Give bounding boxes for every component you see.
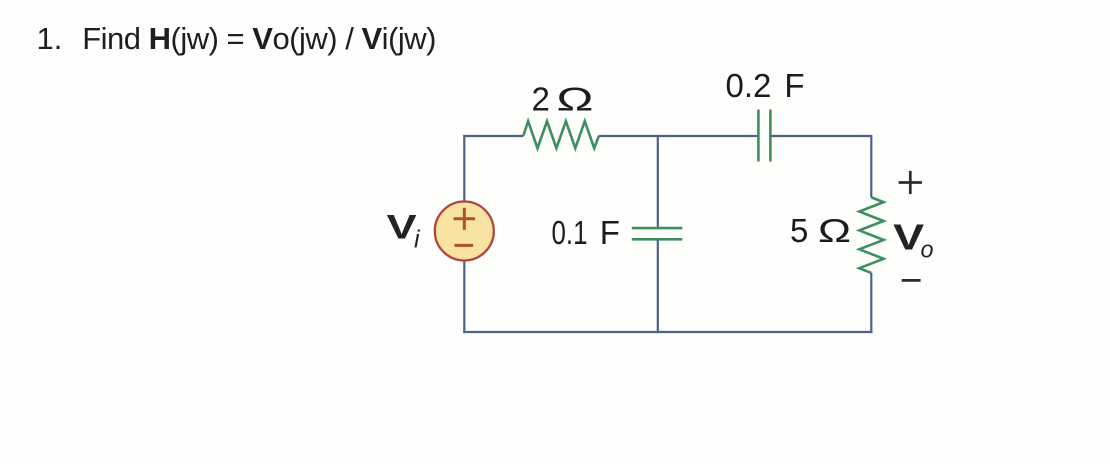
resistor R1 2Ω (horizontal zigzag) [523,121,599,148]
wire: bottom horizontal segment [463,331,872,333]
voltage source minus sign [455,244,474,247]
svg-text:0.2: 0.2 [726,67,772,104]
wire: middle vertical upper segment [657,136,659,228]
svg-text:5: 5 [790,212,808,249]
capacitor C1 0.1F bottom plate [632,238,683,241]
wire: top-right horizontal segment [770,135,871,137]
wire: top-left horizontal segment [463,135,523,137]
wire: right vertical upper segment [870,135,872,197]
output minus sign [902,279,921,282]
resistor R2 5Ω (vertical zigzag) [859,197,883,273]
svg-text:0.1: 0.1 [552,214,588,251]
svg-text:F: F [600,214,620,251]
svg-text:i: i [414,226,421,254]
capacitor C2 0.2F right plate [769,110,772,162]
svg-text:V: V [387,208,417,246]
wire: left vertical lower segment [463,262,465,334]
voltage source plus sign [454,208,475,230]
svg-text:2: 2 [532,81,550,118]
wire: middle vertical lower segment [657,239,659,333]
svg-text:o: o [921,236,934,263]
title: 1. Find H(jw) = Vo(jw) / Vi(jw) [37,23,63,54]
svg-text:Ω: Ω [556,81,594,118]
voltage source Vi circle [435,202,494,261]
svg-text:Ω: Ω [818,212,852,249]
wire: top middle segment between R1 and C2 [599,135,758,137]
output plus sign [899,171,922,194]
wire: left vertical upper segment [463,135,465,201]
capacitor C2 0.2F left plate [757,110,760,162]
svg-text:F: F [784,67,804,104]
wire: right vertical lower segment [870,273,872,333]
capacitor C1 0.1F top plate [632,227,683,230]
